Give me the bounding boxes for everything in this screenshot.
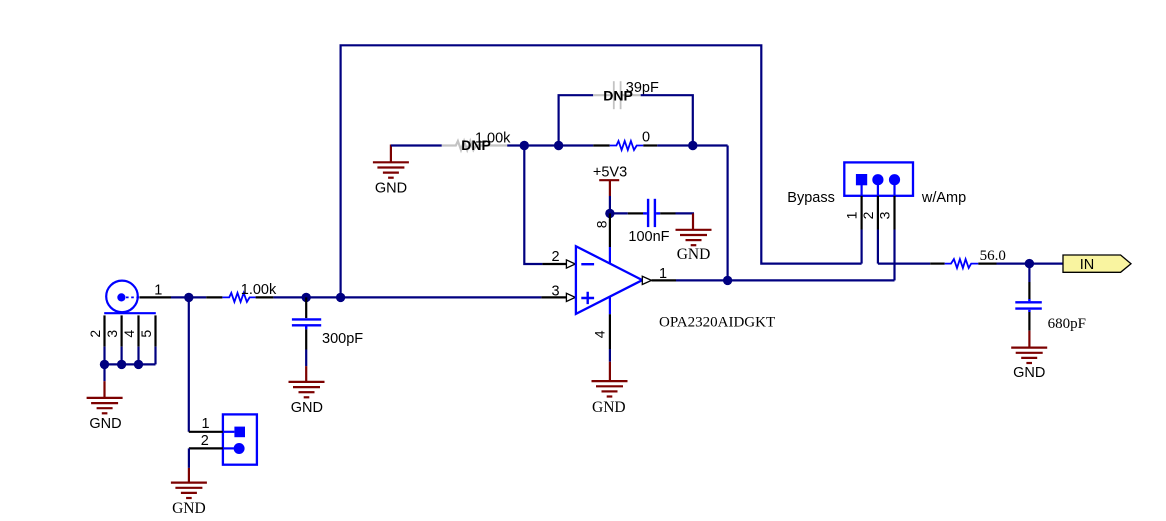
svg-text:8: 8 [593,220,609,228]
ground stem opamp [609,362,611,382]
wire 56 to IN flag [997,263,1064,265]
svg-text:0: 0 [642,129,650,145]
node C junction [336,293,345,302]
opamp U1 pin4 wire [609,314,611,349]
header J 2pin box [223,414,257,464]
svg-text:3: 3 [877,211,893,219]
header J 2pin pin2 wire [189,447,223,449]
resistor R 1.00k input body [222,293,255,302]
opamp U1 pin3 lead [541,296,566,298]
svg-text:GND: GND [677,246,711,263]
capacitor C 300pF plates [292,319,321,329]
wire BNC to node A [171,296,189,298]
svg-text:680pF: 680pF [1048,316,1086,332]
wire 100nF to gnd corner [676,212,695,214]
resistor R0 lead left [593,144,610,146]
svg-text:2: 2 [860,211,876,219]
pin 4 of BNC [137,315,139,346]
capacitor C 100nF lead left [628,212,643,214]
header J3 pin1 square [856,174,867,185]
node D junction [520,141,529,150]
pin 5 label [138,330,154,338]
header J 2pin pin1 square [234,427,245,438]
svg-text:1: 1 [659,266,667,282]
wire feedback top loop [341,45,862,297]
ground stem 100nF [692,213,694,230]
port IN flag [1063,255,1131,272]
junction BNC bus dot 3 [134,360,143,369]
svg-text:56.0: 56.0 [980,248,1006,264]
svg-text:1.00k: 1.00k [475,131,511,147]
svg-text:w/Amp: w/Amp [921,190,966,206]
opamp U1 minus symbol [581,263,594,265]
power +5V3 bar [599,180,619,196]
junction BNC bus dot 2 [117,360,126,369]
pin 5 of BNC [154,315,156,346]
wire header pin2 to gnd [188,448,190,468]
svg-text:300pF: 300pF [322,331,363,347]
header J3 pin1 wire down [860,230,862,264]
node B junction [302,293,311,302]
header J3 pin3 label [877,211,893,219]
wire node G to 100nF [610,212,628,214]
wire +5V3 to node G [609,196,611,213]
header J3 pin2 label [860,211,876,219]
wire 39pF branch left [559,95,594,145]
pin 2 of BNC [103,315,105,346]
header J3 pin2 lead [877,196,879,230]
svg-text:1: 1 [844,211,860,219]
svg-text:+5V3: +5V3 [593,164,627,180]
svg-text:GND: GND [89,416,121,432]
wire node A down to header [188,297,190,431]
connector P1 dashed center line [126,296,139,298]
junction BNC bus dot 1 [100,360,109,369]
header J3 pin1 label [844,211,860,219]
wire DNP R to node D [507,144,593,146]
capacitor C 680pF lead bottom [1028,312,1030,331]
svg-text:GND: GND [291,400,323,416]
ground stem header [188,468,190,483]
pin 3 label [104,330,120,338]
ground GND header [171,483,207,498]
wire pin2 to 56 resistor [878,263,930,265]
svg-text:IN: IN [1080,257,1095,273]
svg-text:2: 2 [551,249,559,265]
svg-text:4: 4 [592,330,608,338]
pin 1 of BNC [139,296,171,298]
opamp U1 output arrow [642,276,651,284]
connector P1 BNC circle [106,281,138,313]
resistor R0 body [610,141,644,150]
pin 3 of BNC [120,315,122,346]
opamp U1 pin2 lead [542,263,566,265]
wire 300pF to gnd [305,350,307,367]
capacitor C 300pF lead bottom [305,329,307,349]
capacitor C 100nF lead right [660,212,675,214]
ground GND 300pF [289,382,325,397]
wire 39pF branch right [641,95,693,145]
capacitor C 39pF DNP lead right gray [621,94,641,96]
ground stem feedback left [390,145,392,163]
wire output row [676,279,895,281]
svg-text:2: 2 [201,433,209,449]
svg-text:39pF: 39pF [626,80,659,96]
resistor R 1.00k input lead right [256,296,274,298]
ground GND feedback left [373,162,409,177]
ground stem BNC [103,381,105,398]
svg-text:100nF: 100nF [628,229,669,245]
capacitor C 100nF plates [643,199,660,227]
resistor R DNP 1.00k body gray [442,141,507,150]
svg-text:GND: GND [172,500,206,517]
ground GND 680pF [1011,348,1047,363]
svg-text:3: 3 [104,330,120,338]
resistor R 1.00k input lead left [206,296,222,298]
resistor R0 lead right [643,144,657,146]
svg-text:GND: GND [592,399,626,416]
header J3 pin3 lead [893,196,895,230]
svg-text:GND: GND [1013,365,1045,381]
node I junction [1025,259,1034,268]
ground GND opamp [592,381,628,396]
svg-text:GND: GND [375,180,407,196]
node A junction [184,293,193,302]
svg-text:5: 5 [138,330,154,338]
wire output up to header pin3 [893,230,895,281]
opamp U1 pin8 label [593,220,609,228]
svg-text:1: 1 [201,416,209,432]
svg-text:1: 1 [154,283,162,299]
wire pin4 to gnd [609,349,611,362]
ground GND BNC [87,398,123,413]
opamp U1 pin2 arrow [566,260,575,268]
opamp U1 pin3 arrow [566,293,575,301]
pin 4 label [121,330,137,338]
ground stem 300pF [305,366,307,382]
connector P1 center pin dot [117,293,125,301]
opamp U1 pin4 label [592,330,608,338]
capacitor C 680pF plates [1015,299,1042,312]
header J3 pin3 circle [889,174,900,185]
wire node A to R input [189,296,206,298]
wire R to opamp pin3 [273,296,541,298]
wire gnd to R DNP [391,144,442,146]
header J3 pin2 wire down [877,230,879,264]
opamp U1 triangle [576,246,642,314]
node G junction [605,209,614,218]
svg-text:1.00k: 1.00k [241,282,277,298]
opamp U1 pin8 inner [609,247,611,264]
opamp U1 pin2 wire from node D [524,146,542,265]
header J 2pin pin2 circle [234,443,245,454]
opamp U1 pin1 lead [652,279,677,281]
wire R0 to node F [657,144,727,146]
resistor R 56.0 lead right [978,263,996,265]
opamp U1 pin4 inner [609,297,611,315]
resistor R 56.0 lead left [930,263,945,265]
node F junction [688,141,697,150]
capacitor C 300pF lead top [305,297,307,318]
header J3 bypass box [844,162,913,195]
pin 2 label [87,330,103,338]
svg-text:4: 4 [121,330,137,338]
ground stem 680pF [1028,331,1030,349]
svg-text:OPA2320AIDGKT: OPA2320AIDGKT [659,314,775,330]
capacitor C 680pF lead top [1028,264,1030,282]
header J3 pin1 lead [860,196,862,230]
connector P1 shield bar [104,312,156,314]
node H output junction [723,276,732,285]
capacitor C 39pF DNP lead left gray [593,94,613,96]
opamp U1 plus symbol [581,292,594,304]
opamp U1 pin8 wire [609,213,611,247]
ground GND 100nF [676,230,712,245]
header J3 pin2 circle [872,174,883,185]
node E junction [554,141,563,150]
header J 2pin pin1 wire [189,431,223,433]
svg-text:3: 3 [551,284,559,300]
wire node F down to output [726,146,728,281]
capacitor C 39pF DNP plates gray [614,81,621,109]
wire BNC shield bus [105,347,156,382]
svg-text:2: 2 [87,330,103,338]
svg-text:Bypass: Bypass [787,190,835,206]
resistor R 56.0 body [945,259,979,268]
